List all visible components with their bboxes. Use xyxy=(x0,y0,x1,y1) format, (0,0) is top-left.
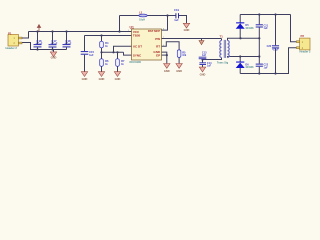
svg-text:1uF: 1uF xyxy=(174,19,179,22)
wire C15 bottom to gnd xyxy=(84,55,86,72)
svg-text:4.7uF: 4.7uF xyxy=(65,42,72,46)
wire drop to pin SYNC xyxy=(124,52,132,55)
node junction (275,73) xyxy=(274,72,276,74)
svg-text:C19: C19 xyxy=(174,8,179,12)
svg-text:RT: RT xyxy=(156,44,160,48)
diode D6 xyxy=(236,62,254,70)
resistor R4 xyxy=(100,41,109,48)
svg-text:GND: GND xyxy=(184,28,190,32)
ground under cap bank xyxy=(50,52,56,60)
capacitor C16 xyxy=(34,39,43,48)
power ground port on drive wire xyxy=(199,41,204,45)
wire gnd port stub x201 xyxy=(201,39,203,41)
diode D5 xyxy=(236,22,254,30)
wire IC drive pin to transformer xyxy=(162,38,222,40)
node junction (275,14) xyxy=(274,13,276,15)
capacitor C18 xyxy=(63,39,72,48)
wire pin2 P1 to bottom rail xyxy=(22,43,67,50)
wire left loop vertical to C15 xyxy=(84,36,86,52)
wire C20 column bottom xyxy=(275,48,277,73)
svg-text:P1: P1 xyxy=(8,31,12,35)
power port VCC xyxy=(37,24,42,32)
wire bead to cap C19 xyxy=(147,15,175,17)
svg-text:Trans Sig: Trans Sig xyxy=(217,61,229,64)
wire secondary bottom xyxy=(228,57,260,58)
wire main rail VCC y31 xyxy=(29,31,132,33)
node junction (166.3,54.6) xyxy=(166,54,168,56)
svg-text:10k: 10k xyxy=(182,54,187,57)
wire C17 leads xyxy=(52,32,54,45)
junction dots xyxy=(36,13,276,74)
wire snubber column top xyxy=(258,15,260,25)
svg-text:GND: GND xyxy=(164,69,170,73)
svg-text:4.7uF: 4.7uF xyxy=(36,42,43,46)
svg-text:PW: PW xyxy=(155,37,160,41)
wire Dtop anode lead xyxy=(239,28,241,38)
svg-text:1uF: 1uF xyxy=(207,65,212,68)
node junction (52,31) xyxy=(51,30,53,32)
node junction (258.8,56.6) xyxy=(258,55,260,57)
node junction (37,49) xyxy=(36,48,38,50)
wire Ra top lead xyxy=(101,36,103,42)
wire GND EP pins xyxy=(162,52,167,63)
svg-text:RST MFP: RST MFP xyxy=(148,29,160,33)
wire top left y15.5 xyxy=(120,15,139,17)
wire cap C19 to gnd drop xyxy=(179,16,187,24)
wire primary bottom to cap column xyxy=(203,58,222,60)
node junction (258.8,14) xyxy=(258,13,260,15)
inductor bead L2 xyxy=(139,11,147,22)
svg-text:Header 2: Header 2 xyxy=(300,50,312,54)
wire top rail right y14 xyxy=(240,14,290,16)
ground under R5 xyxy=(176,64,182,73)
resistor R7 xyxy=(116,59,125,67)
wire Rc leads xyxy=(117,52,119,59)
wire gnd stub under caps xyxy=(53,50,55,52)
wire R5 to gnd xyxy=(178,57,180,63)
svg-text:1N4148: 1N4148 xyxy=(245,27,254,30)
capacitor C17 xyxy=(49,39,58,48)
wire node row y51.8 xyxy=(102,51,124,53)
node junction (240,37.8) xyxy=(239,37,241,39)
capacitor C20 xyxy=(267,45,279,51)
ground under R7 xyxy=(114,72,120,81)
node junction (119,31) xyxy=(118,30,120,32)
ground under C19 xyxy=(183,23,189,32)
wire loop top y35 xyxy=(85,35,132,37)
wire IC pin top right to top wire xyxy=(162,16,168,31)
node junction (113,51.8) xyxy=(112,51,114,53)
wire snubber column bottom xyxy=(258,67,260,74)
wire secondary top xyxy=(228,38,260,40)
svg-text:DCC1900: DCC1900 xyxy=(130,60,142,64)
wire Rb leads xyxy=(101,52,103,59)
svg-text:SYNC: SYNC xyxy=(133,53,142,57)
wire pin1 P1 to rail xyxy=(22,32,29,39)
node junction (117,51.8) xyxy=(116,51,118,53)
node junction (101,35) xyxy=(100,34,102,36)
wire RT pin to R5 xyxy=(162,42,180,50)
node junction (202,59) xyxy=(201,58,203,60)
wire snubber column middle xyxy=(258,28,260,64)
svg-text:GND: GND xyxy=(99,77,105,81)
svg-text:1N4148: 1N4148 xyxy=(245,66,254,69)
capacitor C19 xyxy=(174,8,179,22)
capacitor C21 xyxy=(256,24,269,30)
connector P1 xyxy=(6,31,23,50)
wire cap13 bottom to dot xyxy=(202,59,204,62)
connector P2 xyxy=(296,34,311,53)
wire Dtop cathode to top rail xyxy=(239,15,241,23)
ground under C14 xyxy=(199,67,205,76)
wire C16 leads xyxy=(37,32,39,45)
svg-text:4.7uF: 4.7uF xyxy=(272,48,279,51)
capacitor C14 xyxy=(199,62,212,68)
wire right column to P2 pin2 xyxy=(289,48,297,74)
svg-text:1uF: 1uF xyxy=(264,27,269,30)
ground under R6 xyxy=(98,72,104,81)
node junction (66,31) xyxy=(65,30,67,32)
svg-text:EP: EP xyxy=(156,54,160,58)
capacitor C15 xyxy=(81,50,95,57)
svg-text:TB05: TB05 xyxy=(133,34,141,38)
svg-text:T1: T1 xyxy=(220,35,224,39)
op-amp U1 (IC box) xyxy=(128,26,165,65)
wire cap14 bottom to gnd xyxy=(202,65,204,67)
svg-text:GND: GND xyxy=(115,77,121,81)
svg-text:1uF: 1uF xyxy=(264,66,269,69)
wire primary top lead xyxy=(221,39,223,41)
resistor R6 xyxy=(100,59,109,67)
wire bottom rail right y73 xyxy=(240,73,289,75)
node junction (258.8,37.8) xyxy=(258,37,260,39)
svg-text:GND: GND xyxy=(82,77,88,81)
node junction (101,51.8) xyxy=(100,51,102,53)
svg-text:4.7uF: 4.7uF xyxy=(51,42,58,46)
wire Dbot cathode lead xyxy=(239,57,241,62)
svg-text:Header 2: Header 2 xyxy=(6,46,18,50)
node junction (167,15) xyxy=(166,14,168,16)
svg-text:GND: GND xyxy=(176,69,182,73)
node junction (52,49) xyxy=(51,48,53,50)
wire Ra bottom lead xyxy=(101,48,103,53)
wire riser to pin UC xyxy=(114,46,132,52)
resistor R5 xyxy=(177,50,187,58)
svg-text:UC DT: UC DT xyxy=(133,45,142,49)
transformer T1 xyxy=(217,35,229,65)
wire C18 leads xyxy=(66,32,68,45)
svg-text:10uH: 10uH xyxy=(139,19,145,22)
node junction (258.8,73) xyxy=(258,72,260,74)
ground under C15 xyxy=(81,72,87,81)
svg-text:1uF: 1uF xyxy=(202,54,207,57)
wire right column to P2 pin1 xyxy=(291,15,297,42)
ground under GND EP pins xyxy=(164,64,170,73)
svg-text:1uF: 1uF xyxy=(89,54,94,57)
node junction (37,31) xyxy=(36,30,38,32)
svg-text:C20: C20 xyxy=(267,45,272,48)
svg-text:P2: P2 xyxy=(301,34,305,38)
capacitor C22 xyxy=(256,64,269,70)
svg-text:GND: GND xyxy=(200,73,206,77)
wire riser x119 xyxy=(119,16,121,32)
wire Dbot anode to bottom rail xyxy=(239,68,241,74)
node junction (239.7,56.6) xyxy=(239,55,241,57)
svg-text:GND: GND xyxy=(51,56,57,60)
capacitor C13 xyxy=(199,52,207,60)
wire C20 column top xyxy=(275,15,277,46)
